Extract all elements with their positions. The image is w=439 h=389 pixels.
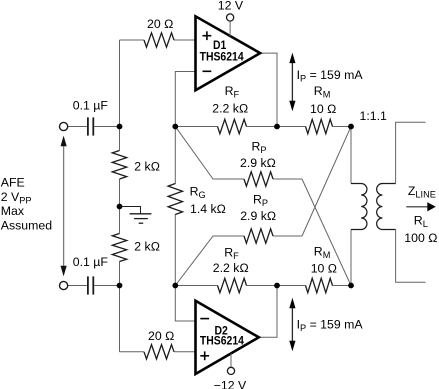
wire line bracket bottom — [396, 230, 426, 283]
wire node H to RM2 — [277, 285, 306, 287]
svg-text:20 Ω: 20 Ω — [148, 329, 174, 343]
wire line bracket top — [396, 122, 426, 183]
op-amp U2 D2 THS6214 — [196, 301, 259, 374]
wire RF1 to node C — [247, 126, 278, 128]
wire D2 minus input stub — [175, 286, 195, 322]
wire node A down to R2 — [119, 127, 121, 151]
wire transformer primary bottom — [350, 230, 352, 286]
wire R2 to ground node — [119, 179, 121, 207]
Z line arrow — [406, 202, 436, 211]
wire node D down to RG — [174, 127, 176, 185]
wire D1 output to node C — [260, 53, 277, 126]
junction node B — [117, 283, 123, 289]
svg-text:IP = 159 mA: IP = 159 mA — [297, 68, 364, 84]
wire node G to RF2 lead — [175, 285, 217, 287]
svg-text:THS6214: THS6214 — [200, 335, 245, 348]
svg-text:−12 V: −12 V — [214, 378, 247, 389]
junction node E — [348, 124, 354, 130]
svg-text:2 kΩ: 2 kΩ — [134, 240, 160, 254]
junction node A — [117, 124, 123, 130]
wire RM2 to node F — [333, 285, 352, 287]
wire cap to node B — [94, 285, 119, 287]
wire R3 to node B — [119, 262, 121, 286]
wire RP2 right lead — [273, 235, 302, 237]
wire D2 output to node H — [259, 286, 277, 338]
svg-text:10 Ω: 10 Ω — [311, 261, 337, 275]
wire node C to RM1 — [277, 126, 306, 128]
resistor RM2 10 Ohm bottom — [306, 278, 333, 292]
wire 20ohm row left lead — [120, 39, 145, 41]
wire RP1 cross-diagonal to node F — [302, 179, 351, 286]
wire RF2 to node H — [247, 285, 278, 287]
wire node B down to 20ohm row — [119, 286, 121, 352]
junction node G — [172, 283, 178, 289]
input terminal bottom — [60, 281, 68, 289]
svg-text:100 Ω: 100 Ω — [404, 231, 437, 245]
wire ground node to R3 — [119, 207, 121, 234]
wire RM1 to node E — [333, 126, 352, 128]
resistor 20 Ohm top — [144, 33, 174, 47]
wire cap to node A — [94, 126, 119, 128]
svg-text:1.4 kΩ: 1.4 kΩ — [190, 202, 226, 216]
svg-text:2.2 kΩ: 2.2 kΩ — [213, 261, 249, 275]
wire 20ohm bottom left lead — [120, 351, 145, 353]
wire RG down to node G — [174, 214, 176, 286]
-12V supply — [214, 354, 247, 389]
svg-text:2.9 kΩ: 2.9 kΩ — [240, 156, 276, 170]
svg-text:2.9 kΩ: 2.9 kΩ — [240, 209, 276, 223]
svg-text:2 kΩ: 2 kΩ — [134, 159, 160, 173]
junction node C — [274, 124, 280, 130]
svg-text:0.1 µF: 0.1 µF — [73, 255, 109, 269]
wire input-top circle to cap — [68, 126, 87, 128]
resistor RF2 2.2k bottom — [218, 278, 247, 292]
op-amp U1 D1 THS6214 — [196, 16, 261, 90]
svg-text:2.2 kΩ: 2.2 kΩ — [212, 101, 248, 115]
resistor 20 Ohm bottom — [144, 345, 174, 359]
wire input-bottom circle to cap — [68, 285, 87, 287]
+12V supply — [218, 0, 244, 36]
input terminal top — [60, 122, 68, 130]
transformer T1 primary winding — [351, 184, 367, 230]
wire RP2 cross-diagonal to node E — [302, 127, 351, 237]
wire node G diagonal to RP2 row — [175, 236, 244, 286]
wire RP1 right lead — [273, 178, 302, 180]
svg-text:0.1 µF: 0.1 µF — [73, 98, 109, 112]
input Vpp double arrow — [61, 136, 67, 277]
resistor RG 1.4k — [168, 184, 182, 215]
resistor 2k lower — [112, 234, 126, 262]
svg-text:20 Ω: 20 Ω — [147, 17, 173, 31]
svg-text:IP = 159 mA: IP = 159 mA — [297, 318, 364, 334]
resistor 2k upper — [112, 151, 126, 180]
svg-text:Max: Max — [1, 204, 25, 218]
svg-text:1:1.1: 1:1.1 — [360, 109, 388, 123]
wire node D diagonal to RP1 row — [175, 127, 244, 180]
junction node gnd — [117, 204, 123, 210]
resistor RF1 2.2k top — [218, 119, 247, 133]
svg-text:THS6214: THS6214 — [200, 51, 245, 64]
svg-text:Assumed: Assumed — [1, 218, 52, 232]
capacitor 0.1uF bottom — [88, 276, 93, 294]
ground — [120, 207, 152, 224]
wire D1 minus input stub — [175, 72, 195, 127]
wire node D to RF1 lead — [175, 126, 217, 128]
capacitor 0.1uF top — [88, 117, 93, 135]
svg-text:AFE: AFE — [1, 176, 25, 190]
Ip arrow top — [289, 53, 295, 112]
wire 20ohm to D2 plus input — [174, 351, 196, 353]
wire node A up to 20ohm row — [119, 40, 121, 127]
svg-text:12 V: 12 V — [218, 0, 244, 12]
junction node H — [274, 283, 280, 289]
svg-text:10 Ω: 10 Ω — [310, 102, 336, 116]
junction node D — [172, 124, 178, 130]
wire transformer primary top — [350, 127, 352, 184]
wire 20ohm to D1 plus input — [174, 39, 196, 41]
resistor RM1 10 Ohm top — [306, 119, 333, 133]
transformer T1 secondary winding — [377, 184, 396, 230]
resistor RP1 2.9k — [244, 172, 273, 186]
junction node F — [348, 283, 354, 289]
Ip arrow bottom — [289, 298, 295, 352]
resistor RP2 2.9k — [244, 229, 273, 243]
